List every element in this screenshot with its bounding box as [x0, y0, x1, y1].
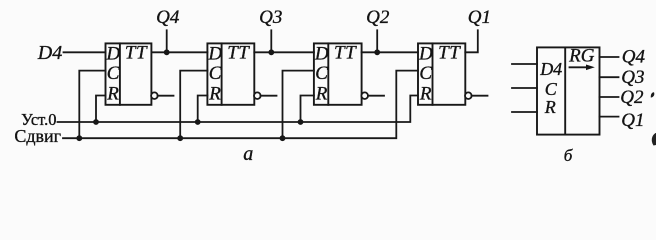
- wire Уст.0 riser to DD3 pin R: [301, 96, 314, 123]
- svg-text:Q3: Q3: [621, 67, 644, 88]
- DD5 output stub Q4: [600, 56, 619, 58]
- svg-text:C: C: [209, 63, 222, 84]
- wire riser to Q3 label: [270, 30, 272, 52]
- DD4 inverted output bubble: [465, 92, 472, 99]
- D flip-flop DD3 body: [314, 43, 362, 104]
- svg-text:Q4: Q4: [622, 47, 646, 68]
- svg-text:Q4: Q4: [156, 7, 180, 28]
- svg-text:C: C: [419, 63, 432, 84]
- svg-text:C: C: [545, 79, 558, 99]
- svg-text:TT: TT: [227, 43, 250, 64]
- wire Сдвиг bus to DD4 pin C: [63, 71, 418, 139]
- svg-text:Q2: Q2: [620, 87, 644, 108]
- svg-text:C: C: [315, 63, 328, 84]
- DD5 input stub C: [512, 87, 537, 89]
- DD5 input stub R: [512, 111, 537, 113]
- svg-text:D: D: [105, 43, 120, 64]
- wire riser to Q2 label: [376, 30, 378, 52]
- wire Уст.0 riser to DD1 pin R: [96, 96, 106, 123]
- DD5 output stub Q2: [600, 96, 619, 98]
- wire Сдвиг riser to DD1 pin C: [79, 71, 105, 139]
- DD3 inverted output bubble: [361, 92, 368, 99]
- svg-text:D4: D4: [539, 59, 562, 79]
- junction on Сдвиг bus at DD3: [280, 135, 286, 141]
- junction on Уст.0 bus at DD1: [93, 119, 99, 125]
- wire Уст.0 riser to DD2 pin R: [198, 96, 208, 123]
- wire DD1 output Q to DD2 pin D: [151, 51, 207, 53]
- svg-text:TT: TT: [438, 43, 461, 64]
- junction on Уст.0 bus at DD2: [195, 119, 201, 125]
- DD2 inverted output bubble: [254, 92, 261, 99]
- wire DD4 output Q up to Q1 label: [465, 30, 478, 52]
- svg-text:Q1: Q1: [468, 7, 491, 28]
- wire Сдвиг riser to DD3 pin C: [283, 71, 314, 139]
- D flip-flop DD2 body: [207, 43, 254, 104]
- svg-text:R: R: [544, 97, 556, 117]
- wire DD3 output Q to DD4 pin D: [362, 51, 418, 53]
- svg-text:Q1: Q1: [621, 110, 644, 131]
- DD1 inverted output bubble: [151, 92, 158, 99]
- svg-text:R: R: [106, 83, 119, 104]
- svg-text:D: D: [418, 43, 433, 64]
- svg-text:D: D: [314, 43, 329, 64]
- svg-text:R: R: [315, 83, 328, 104]
- D flip-flop DD1 body: [106, 43, 152, 104]
- print artifact partial glyph at right edge: [652, 133, 656, 146]
- wire riser to Q4 label: [166, 30, 168, 52]
- svg-text:TT: TT: [334, 43, 357, 64]
- svg-text:Q2: Q2: [366, 7, 390, 28]
- DD4 inverted output stub wire: [472, 95, 488, 97]
- register DD5 body (RG): [537, 47, 600, 134]
- DD2 inverted output stub wire: [261, 95, 277, 97]
- svg-text:RG: RG: [568, 46, 595, 67]
- DD5 output stub Q1: [600, 116, 619, 118]
- junction node Q4: [164, 49, 170, 55]
- wire Сдвиг riser to DD2 pin C: [180, 71, 207, 139]
- svg-text:R: R: [208, 83, 221, 104]
- wire Уст.0 bus to DD4 pin R: [58, 96, 419, 123]
- junction on Уст.0 bus at DD3: [298, 119, 304, 125]
- svg-text:Сдвиг: Сдвиг: [14, 126, 61, 146]
- junction node Q2: [374, 49, 380, 55]
- junction on Сдвиг bus at DD1: [76, 135, 82, 141]
- svg-text:C: C: [107, 63, 120, 84]
- wire D4 input to DD1 pin D: [64, 51, 106, 53]
- svg-text:D: D: [207, 43, 222, 64]
- svg-text:б: б: [564, 146, 573, 165]
- print artifact tick after Q2: [651, 92, 655, 97]
- svg-text:R: R: [419, 83, 432, 104]
- DD1 inverted output stub wire: [158, 95, 174, 97]
- junction node Q3: [268, 49, 274, 55]
- svg-text:TT: TT: [125, 43, 148, 64]
- svg-text:Q3: Q3: [259, 7, 282, 28]
- DD5 input stub D4: [512, 63, 537, 65]
- wire DD2 output Q to DD3 pin D: [254, 51, 314, 53]
- svg-text:а: а: [243, 143, 253, 165]
- svg-text:D4: D4: [37, 42, 62, 64]
- D flip-flop DD4 body: [418, 43, 465, 104]
- DD5 output stub Q3: [600, 76, 619, 78]
- DD5 shift-direction arrow: [570, 65, 595, 71]
- junction on Сдвиг bus at DD2: [177, 135, 183, 141]
- DD3 inverted output stub wire: [368, 95, 384, 97]
